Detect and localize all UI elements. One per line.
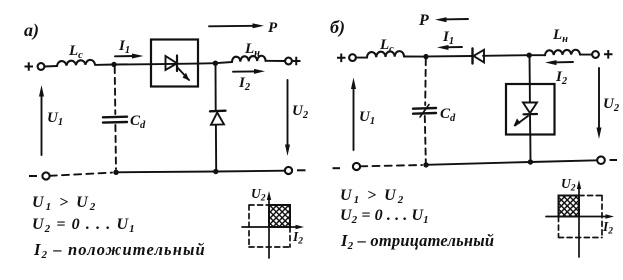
svg-text:I2 – отрицательный: I2 – отрицательный (340, 231, 494, 252)
svg-text:U1 > U2: U1 > U2 (32, 194, 97, 213)
svg-text:б): б) (330, 17, 345, 38)
svg-text:а): а) (24, 20, 39, 41)
svg-text:P: P (268, 20, 278, 36)
svg-text:I2 – положительный: I2 – положительный (33, 240, 206, 261)
svg-text:U1 > U2: U1 > U2 (340, 187, 405, 206)
svg-text:P: P (418, 12, 429, 29)
